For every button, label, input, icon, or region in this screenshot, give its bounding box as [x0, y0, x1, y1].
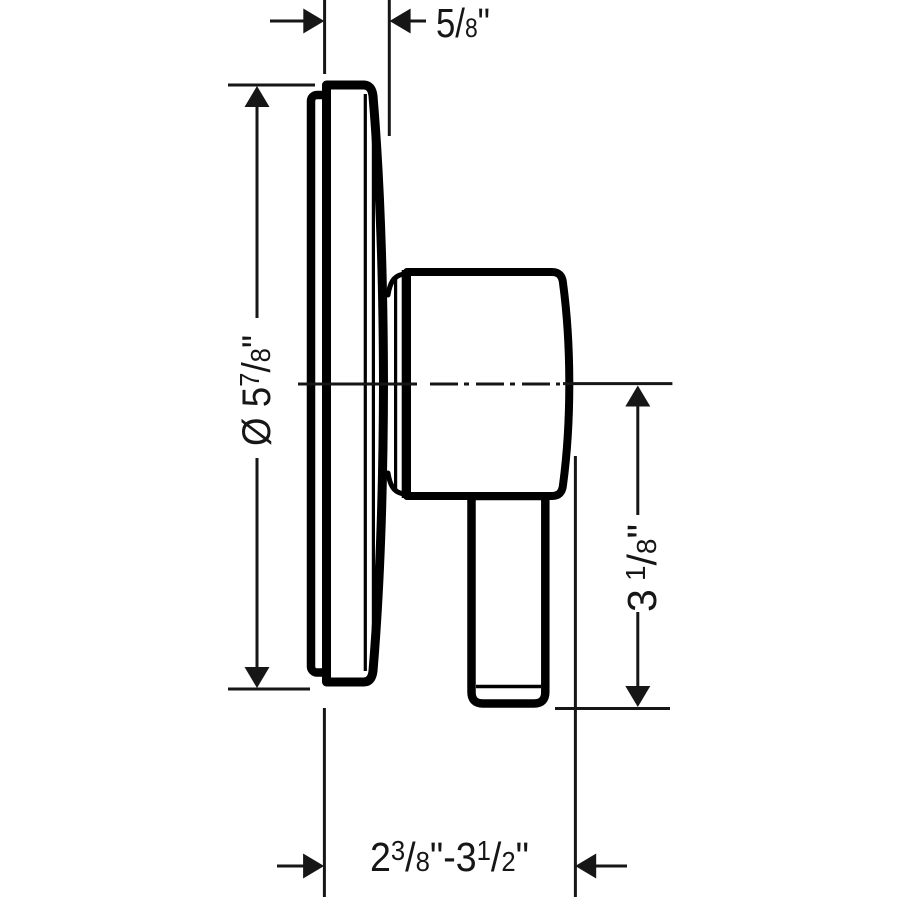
node bottom dimension arrows [277, 854, 627, 879]
handle left edge reinforcement [402, 270, 413, 498]
contour line 1 [364, 94, 367, 671]
node top dimension arrows [270, 9, 426, 34]
lever end-cap line [476, 685, 541, 689]
wire: top-left extension line [323, 0, 326, 74]
neck sleeve flare top [388, 274, 407, 296]
wire: center line [298, 382, 672, 385]
neck sleeve contour [394, 276, 397, 492]
wire: bottom-left extension line [323, 708, 326, 897]
svg-text:5/8": 5/8" [436, 0, 490, 46]
handle knob body [407, 272, 569, 496]
node diameter dimension [228, 85, 315, 689]
escutcheon body [327, 85, 384, 682]
lever handle (downward) [472, 496, 546, 704]
contour line 2 [372, 112, 375, 655]
neck sleeve flare bottom [388, 473, 407, 495]
wire: bottom-right extension line [574, 456, 577, 897]
carrier plate (back escutcheon) [311, 95, 328, 673]
wire: top-right extension line [388, 0, 391, 136]
node 3-1/8 dimension [555, 386, 670, 709]
